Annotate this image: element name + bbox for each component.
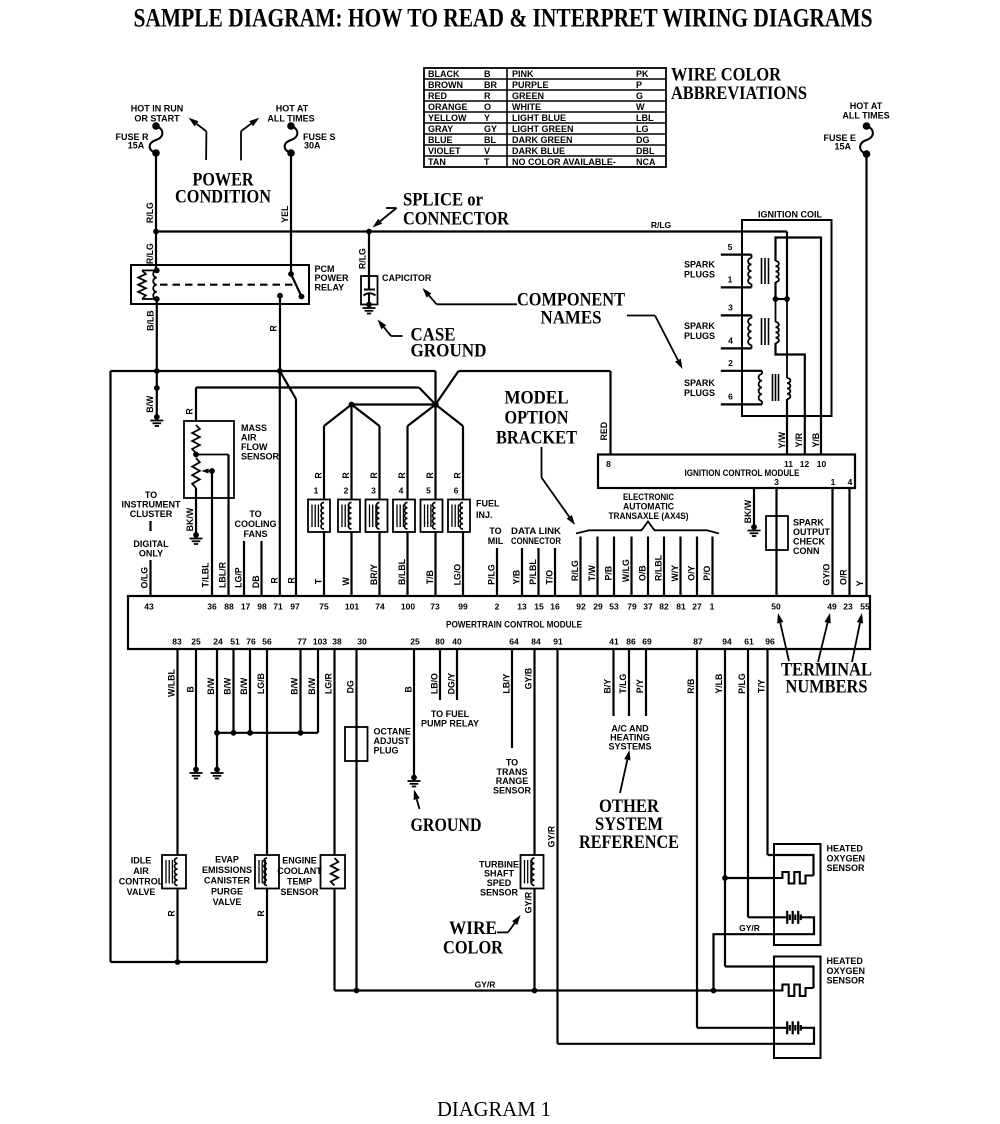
wire R relay output [269, 296, 281, 371]
svg-text:1: 1 [728, 275, 733, 285]
svg-text:VALVE: VALVE [127, 887, 156, 897]
svg-text:INJ.: INJ. [476, 510, 493, 520]
label SPARK PLUGS 3 [684, 378, 715, 398]
svg-text:PUMP RELAY: PUMP RELAY [421, 719, 479, 729]
svg-text:LG/B: LG/B [256, 673, 266, 694]
spark plug stub 2 [721, 358, 762, 371]
wire R/B to sensor 2 cell [697, 1027, 787, 1029]
wire T/LG pin 86 [618, 649, 629, 716]
wire DB to pin 98 [251, 541, 262, 596]
svg-text:WHITE: WHITE [512, 102, 541, 112]
svg-text:CAPICITOR: CAPICITOR [382, 273, 432, 283]
svg-text:B/W: B/W [239, 677, 249, 695]
wire Y/LB pin 94 [714, 649, 725, 967]
svg-text:LB/O: LB/O [430, 673, 440, 694]
spark plug stub 1 [721, 275, 752, 288]
wire RED to ICM pin 8 [599, 371, 611, 455]
wire T/Y pin 96 [757, 649, 768, 855]
svg-text:R/LG: R/LG [651, 220, 672, 230]
svg-text:GY/R: GY/R [547, 825, 557, 847]
svg-text:HEATED: HEATED [827, 956, 864, 966]
wire to injector 2 [341, 405, 352, 500]
svg-text:P: P [636, 80, 642, 90]
transformer T2 primary [748, 315, 751, 348]
svg-text:P/B: P/B [604, 566, 614, 581]
svg-text:81: 81 [676, 602, 686, 612]
svg-text:R: R [269, 325, 279, 332]
svg-text:3: 3 [728, 303, 733, 313]
wire GY/R bus [335, 980, 775, 994]
wire R/B pin 87 [686, 649, 697, 1028]
svg-text:YELLOW: YELLOW [428, 113, 467, 123]
annotation OTHER SYSTEM REFERENCE [579, 796, 679, 853]
svg-text:SYSTEMS: SYSTEMS [608, 742, 651, 752]
svg-text:1: 1 [831, 477, 836, 487]
svg-text:55: 55 [860, 602, 870, 612]
svg-text:ENGINE: ENGINE [282, 856, 317, 866]
svg-text:NCA: NCA [636, 157, 656, 167]
svg-text:W: W [341, 577, 351, 586]
svg-text:84: 84 [531, 637, 541, 647]
svg-text:2: 2 [728, 358, 733, 368]
junction dot R bus [277, 368, 283, 374]
svg-text:V: V [484, 146, 490, 156]
svg-text:Y: Y [855, 580, 865, 586]
label TO FUEL PUMP RELAY [421, 709, 479, 729]
svg-text:BLUE: BLUE [428, 135, 453, 145]
transformer T1 core [762, 258, 769, 284]
svg-text:Y/LB: Y/LB [714, 674, 724, 694]
wire LB/Y pin 64 [502, 649, 513, 748]
svg-text:4: 4 [728, 336, 733, 346]
arrow to splice [373, 208, 397, 228]
svg-text:R: R [397, 472, 407, 479]
wire W/LBL to idle air valve [167, 649, 178, 855]
svg-text:3: 3 [774, 477, 779, 487]
wire W/Y AX4S [670, 537, 681, 597]
svg-text:98: 98 [257, 602, 267, 612]
fuse S 30A [285, 122, 336, 157]
svg-text:P/LG: P/LG [737, 673, 747, 694]
svg-text:BRACKET: BRACKET [496, 428, 577, 449]
svg-text:TO: TO [506, 758, 518, 768]
svg-text:R: R [167, 910, 177, 917]
wire GY/B to turbine sensor [524, 649, 535, 855]
wire BK/W ICM ground [743, 488, 754, 527]
wire Y/B to pin 13 [512, 548, 523, 596]
wire LBL/R to pin 88 [218, 455, 229, 597]
svg-text:CONN: CONN [793, 546, 820, 556]
label TO INSTRUMENT CLUSTER [122, 490, 181, 519]
svg-text:IGNITION CONTROL MODULE: IGNITION CONTROL MODULE [685, 468, 800, 478]
svg-text:P/LG: P/LG [487, 564, 497, 585]
svg-text:99: 99 [458, 602, 468, 612]
heading WIRE COLOR ABBREVIATIONS [671, 65, 807, 105]
svg-text:24: 24 [213, 637, 223, 647]
svg-text:HOT AT: HOT AT [850, 101, 883, 111]
svg-text:GY/R: GY/R [475, 980, 496, 990]
svg-text:2: 2 [344, 486, 349, 496]
wire GY/R pin 91 [547, 649, 558, 1044]
svg-text:T/W: T/W [587, 564, 597, 581]
svg-text:MASS: MASS [241, 423, 267, 433]
wire secondary3 to Y/W output [786, 399, 788, 455]
svg-text:75: 75 [319, 602, 329, 612]
svg-text:TO: TO [145, 490, 157, 500]
svg-text:OR START: OR START [134, 114, 180, 124]
wire R evap valve [256, 889, 267, 963]
svg-text:17: 17 [241, 602, 251, 612]
svg-text:G: G [636, 91, 643, 101]
svg-text:NUMBERS: NUMBERS [786, 677, 868, 698]
transformer T2 core [762, 318, 769, 345]
svg-text:56: 56 [262, 637, 272, 647]
wire T/LBL to pin 36 [201, 471, 213, 596]
wire secondary1 bottom to tap [774, 282, 776, 299]
wire B/Y pin 41 [603, 649, 614, 716]
spark plug stub 3 [721, 303, 752, 316]
wire T/O to pin 16 [545, 548, 556, 596]
svg-text:YEL: YEL [280, 205, 290, 223]
label HOT IN RUN OR START [131, 104, 184, 124]
svg-text:T/Y: T/Y [757, 679, 767, 693]
svg-text:Y: Y [484, 113, 490, 123]
svg-text:OXYGEN: OXYGEN [827, 853, 866, 863]
sensor HEATED OXYGEN 2 [774, 956, 865, 1058]
annotation SPLICE or CONNECTOR [403, 190, 509, 230]
annotation TERMINAL NUMBERS [781, 660, 872, 698]
svg-text:R: R [369, 472, 379, 479]
svg-text:73: 73 [430, 602, 440, 612]
svg-text:REFERENCE: REFERENCE [579, 832, 679, 853]
svg-text:R: R [341, 472, 351, 479]
svg-text:1: 1 [314, 486, 319, 496]
wire R to MAF sensor [185, 388, 436, 422]
svg-text:88: 88 [224, 602, 234, 612]
svg-text:INSTRUMENT: INSTRUMENT [122, 500, 181, 510]
svg-text:FUEL: FUEL [476, 499, 500, 509]
capacitor CAPICITOR [361, 273, 432, 305]
svg-text:BK/W: BK/W [185, 507, 195, 531]
ground B/W [154, 414, 160, 420]
label SPARK PLUGS 1 [684, 260, 715, 280]
label SPARK PLUGS 2 [684, 321, 715, 341]
wire bus diagonal to RED [436, 371, 611, 405]
svg-text:OCTANE: OCTANE [374, 727, 411, 737]
transformer T3 secondary [787, 299, 790, 399]
svg-text:VIOLET: VIOLET [428, 146, 461, 156]
wire B to ground [186, 649, 197, 770]
arrow to ground [417, 799, 420, 809]
svg-text:OUTPUT: OUTPUT [793, 527, 831, 537]
svg-text:29: 29 [593, 602, 603, 612]
svg-text:SPARK: SPARK [684, 321, 715, 331]
svg-text:B/W: B/W [307, 677, 317, 695]
wire R/LBL AX4S [654, 537, 665, 597]
svg-text:5: 5 [728, 242, 733, 252]
svg-text:92: 92 [576, 602, 586, 612]
svg-text:87: 87 [693, 637, 703, 647]
svg-text:82: 82 [659, 602, 669, 612]
wire O/Y AX4S [687, 537, 698, 597]
arrow to case ground [378, 320, 403, 337]
svg-text:B/LB: B/LB [146, 310, 156, 331]
svg-text:R: R [453, 472, 463, 479]
svg-text:MIL: MIL [488, 536, 504, 546]
module IGNITION CONTROL MODULE [598, 455, 855, 489]
svg-text:SHAFT: SHAFT [484, 869, 514, 879]
wire injector 3 to PCM [369, 532, 380, 596]
svg-text:DARK GREEN: DARK GREEN [512, 135, 573, 145]
wire color abbreviation table [424, 68, 666, 167]
svg-text:DIGITAL: DIGITAL [133, 539, 169, 549]
svg-text:LG/P: LG/P [234, 567, 244, 588]
svg-text:TEMP: TEMP [287, 877, 312, 887]
svg-text:BL: BL [484, 135, 496, 145]
wire R to pin 97 [280, 371, 297, 596]
valve IDLE AIR CONTROL [119, 855, 186, 897]
wire Y/LB to sensor 1 heater [722, 875, 774, 881]
wire P/LBL to pin 15 [528, 548, 539, 596]
svg-text:O/B: O/B [638, 565, 648, 581]
svg-text:LBL/R: LBL/R [218, 561, 228, 588]
ground B left [193, 767, 199, 773]
svg-text:25: 25 [191, 637, 201, 647]
wire B/W pin 77 [290, 649, 301, 733]
svg-text:W: W [636, 102, 645, 112]
svg-text:CONNECTOR: CONNECTOR [403, 209, 509, 230]
svg-text:CONNECTOR: CONNECTOR [511, 536, 561, 546]
junction dots center tap [773, 296, 790, 302]
module POWERTRAIN CONTROL MODULE [128, 596, 870, 649]
wire B/W pin 76 [239, 649, 250, 733]
svg-text:TO: TO [489, 526, 501, 536]
svg-text:DBL: DBL [636, 146, 655, 156]
svg-text:RED: RED [428, 91, 448, 101]
svg-text:100: 100 [401, 602, 415, 612]
junction idle valve rail [175, 959, 181, 965]
svg-text:4: 4 [848, 477, 853, 487]
wire injector 2 to PCM [341, 532, 352, 596]
svg-text:6: 6 [728, 392, 733, 402]
svg-text:B/W: B/W [290, 677, 300, 695]
svg-text:40: 40 [452, 637, 462, 647]
svg-text:IGNITION COIL: IGNITION COIL [758, 210, 823, 220]
svg-text:B: B [186, 686, 196, 692]
svg-text:103: 103 [313, 637, 327, 647]
svg-text:TAN: TAN [428, 157, 446, 167]
B/W ground bus [214, 730, 318, 770]
svg-text:37: 37 [643, 602, 653, 612]
fuel injector 5 [421, 486, 443, 533]
ground ICM BK/W [751, 524, 757, 530]
svg-text:13: 13 [517, 602, 527, 612]
svg-text:T: T [314, 578, 324, 584]
svg-text:BK/W: BK/W [743, 499, 753, 523]
wire R/LG relay feed [145, 232, 156, 271]
svg-text:53: 53 [609, 602, 619, 612]
svg-text:DATA LINK: DATA LINK [511, 526, 562, 536]
svg-text:91: 91 [553, 637, 563, 647]
svg-text:POWERTRAIN CONTROL MODULE: POWERTRAIN CONTROL MODULE [446, 620, 582, 630]
fuel injector 2 [338, 486, 360, 533]
svg-text:FLOW: FLOW [241, 442, 268, 452]
svg-text:4: 4 [399, 486, 404, 496]
label DIGITAL ONLY [133, 539, 169, 559]
wire R/LG into coil [786, 232, 788, 300]
label A/C AND HEATING SYSTEMS [608, 724, 651, 752]
spark plug stub 4 [721, 336, 752, 349]
fuel injector 6 [448, 486, 470, 533]
svg-text:SENSOR: SENSOR [827, 976, 866, 986]
svg-text:WIRE: WIRE [449, 918, 497, 939]
svg-text:DIAGRAM 1: DIAGRAM 1 [437, 1097, 551, 1121]
svg-text:SPARK: SPARK [793, 518, 824, 528]
svg-text:RELAY: RELAY [315, 282, 345, 292]
wire LG/P to pin 17 [234, 541, 245, 596]
svg-text:SENSOR: SENSOR [241, 452, 280, 462]
svg-text:GRAY: GRAY [428, 124, 453, 134]
PCM bottom pin numbers [172, 637, 775, 647]
label DATA LINK CONNECTOR [511, 526, 562, 546]
svg-text:CONDITION: CONDITION [175, 187, 271, 208]
svg-text:W/LG: W/LG [621, 559, 631, 582]
svg-text:LIGHT GREEN: LIGHT GREEN [512, 124, 574, 134]
svg-text:NO COLOR AVAILABLE-: NO COLOR AVAILABLE- [512, 157, 616, 167]
svg-text:T/LG: T/LG [618, 673, 628, 693]
transformer T2 secondary [776, 299, 779, 343]
wire DG through octane plug [346, 649, 357, 991]
wire W/LG AX4S [621, 537, 632, 597]
svg-text:Y/B: Y/B [811, 433, 821, 448]
annotation MODEL OPTION BRACKET [496, 388, 577, 449]
svg-text:DB: DB [251, 575, 261, 588]
wire R/LG AX4S [570, 537, 581, 597]
svg-text:15A: 15A [834, 142, 851, 152]
wire P/LG to sensor 1 cell [748, 916, 787, 918]
svg-text:74: 74 [375, 602, 385, 612]
svg-text:NAMES: NAMES [541, 308, 602, 329]
svg-text:23: 23 [843, 602, 853, 612]
svg-text:ELECTRONIC: ELECTRONIC [623, 492, 674, 502]
wire R/LG to capacitor [358, 232, 370, 290]
svg-text:TO: TO [249, 509, 261, 519]
svg-text:CANISTER: CANISTER [204, 876, 251, 886]
svg-text:EVAP: EVAP [215, 855, 239, 865]
svg-text:ALL TIMES: ALL TIMES [842, 111, 889, 121]
svg-text:SENSOR: SENSOR [480, 888, 519, 898]
svg-text:LB/Y: LB/Y [502, 673, 512, 693]
valve EVAP EMISSIONS CANISTER PURGE [202, 855, 279, 907]
annotation POWER CONDITION [175, 170, 271, 208]
svg-text:DG: DG [346, 680, 356, 693]
svg-text:SENSOR: SENSOR [493, 786, 532, 796]
wire P/Y pin 69 [635, 649, 646, 716]
svg-text:CONTROL: CONTROL [119, 877, 164, 887]
svg-text:50: 50 [771, 602, 781, 612]
svg-text:ONLY: ONLY [139, 549, 163, 559]
svg-text:GY/O: GY/O [822, 563, 832, 585]
connector SPARK OUTPUT CHECK CONN [766, 516, 831, 556]
arrow to fuse S [241, 118, 259, 161]
svg-text:SAMPLE DIAGRAM: HOW TO READ &: SAMPLE DIAGRAM: HOW TO READ & INTERPRET … [134, 4, 873, 33]
svg-text:76: 76 [246, 637, 256, 647]
wire R/LG from fuse R [145, 153, 156, 232]
sensor HEATED OXYGEN 1 [774, 844, 865, 946]
svg-text:R/LG: R/LG [358, 248, 368, 269]
svg-text:PURPLE: PURPLE [512, 80, 549, 90]
transformer T3 primary [759, 371, 762, 405]
svg-text:83: 83 [172, 637, 182, 647]
svg-text:R: R [287, 577, 297, 584]
svg-text:LG: LG [636, 124, 649, 134]
svg-text:VALVE: VALVE [213, 897, 242, 907]
wire secondary1 top to Y/B output [776, 238, 822, 455]
sensor MASS AIR FLOW [184, 421, 280, 498]
svg-text:96: 96 [765, 637, 775, 647]
svg-text:30: 30 [357, 637, 367, 647]
svg-text:10: 10 [817, 459, 827, 469]
svg-text:FANS: FANS [243, 529, 267, 539]
svg-text:101: 101 [345, 602, 359, 612]
svg-text:OPTION: OPTION [505, 408, 569, 429]
svg-text:HOT IN RUN: HOT IN RUN [131, 104, 184, 114]
ground B/W bus [214, 767, 220, 773]
wire BK/W to ground [185, 488, 196, 535]
svg-text:3: 3 [371, 486, 376, 496]
svg-text:16: 16 [550, 602, 560, 612]
wire LG/B to EVAP valve [256, 649, 267, 855]
svg-text:71: 71 [273, 602, 283, 612]
svg-text:R/LG: R/LG [570, 560, 580, 581]
svg-text:B/Y: B/Y [603, 679, 613, 694]
wire injector 4 to PCM [397, 532, 408, 596]
svg-text:SPARK: SPARK [684, 378, 715, 388]
svg-text:25: 25 [410, 637, 420, 647]
svg-text:8: 8 [606, 459, 611, 469]
wire left rail of option bracket [111, 371, 268, 962]
svg-text:P/Y: P/Y [635, 679, 645, 693]
svg-text:SPARK: SPARK [684, 260, 715, 270]
svg-text:B/W: B/W [206, 677, 216, 695]
svg-text:COLOR: COLOR [443, 938, 503, 959]
wire T/W AX4S [587, 537, 598, 597]
svg-text:OXYGEN: OXYGEN [827, 966, 866, 976]
wire R/LG bus to ignition coil [153, 220, 787, 234]
svg-text:GY/B: GY/B [524, 668, 534, 690]
wire Y/LB into sensor 2 heater [725, 967, 814, 989]
wire O/B AX4S [638, 537, 649, 597]
wire P/B AX4S [604, 537, 615, 597]
wire B/W to ground [145, 371, 160, 417]
wire R to pin 71 [270, 371, 280, 596]
arrow component names to spark plugs [627, 316, 683, 370]
svg-text:ALL TIMES: ALL TIMES [267, 114, 314, 124]
wire T/Y into sensor 1 heater [768, 855, 814, 876]
svg-text:ORANGE: ORANGE [428, 102, 468, 112]
wire B/LB [146, 299, 157, 371]
wire YEL from fuse S [280, 153, 291, 274]
svg-text:O/LG: O/LG [140, 567, 150, 589]
annotation COMPONENT NAMES [517, 290, 625, 329]
label TO TRANS RANGE SENSOR [493, 758, 532, 796]
svg-text:ABBREVIATIONS: ABBREVIATIONS [671, 83, 807, 104]
ground BK/W MAF [193, 532, 199, 538]
svg-text:PK: PK [636, 69, 649, 79]
wire sensor 1 cell return GY/R [714, 917, 815, 990]
svg-text:COOLING: COOLING [235, 519, 277, 529]
junction dot B/LB bus [154, 368, 160, 374]
